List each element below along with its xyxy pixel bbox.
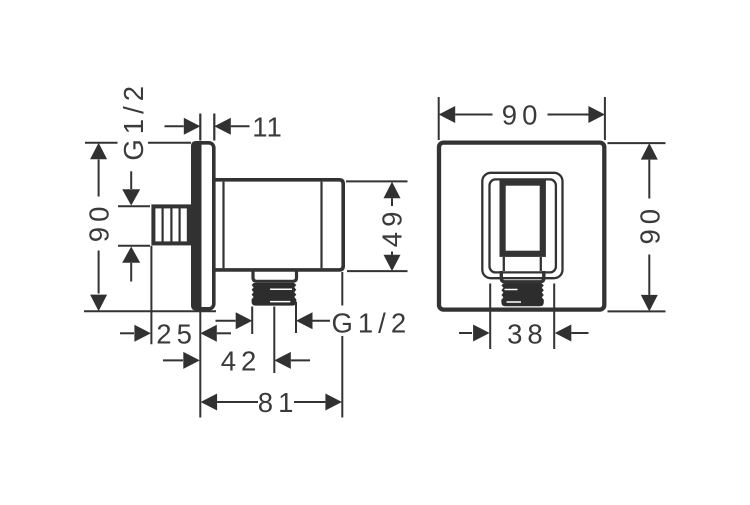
body ring line xyxy=(320,182,322,269)
49 dim line segments xyxy=(391,198,393,255)
top 90 dim ext lines xyxy=(439,97,605,140)
holder neck lines xyxy=(504,257,541,271)
svg-text:G1/2: G1/2 xyxy=(118,81,149,161)
11 left arrow xyxy=(184,118,201,135)
svg-text:49: 49 xyxy=(377,207,408,248)
outlet thread left ext line xyxy=(251,307,253,335)
holder plate inner xyxy=(490,179,556,272)
square escutcheon (front view) xyxy=(439,143,604,310)
svg-text:90: 90 xyxy=(635,204,666,245)
wall plane ext line (x=200.3) xyxy=(199,312,201,418)
wall flange thick back band xyxy=(191,141,202,311)
dim ext line bottom of flange (y=311.2) xyxy=(84,310,216,312)
38 right tail xyxy=(571,332,588,334)
81 left tail xyxy=(217,401,258,403)
wall flange outline (side view) xyxy=(193,143,214,309)
38 left arrow xyxy=(473,325,490,342)
11 right tail xyxy=(231,125,250,127)
11 left tail xyxy=(165,125,184,127)
svg-text:G1/2: G1/2 xyxy=(332,308,412,339)
49 bottom arrow xyxy=(384,255,401,271)
supply nipple thread hatch lines xyxy=(163,207,188,244)
81 left arrow (pointing left) xyxy=(201,394,218,411)
G1/2 bottom right arrow xyxy=(296,312,313,329)
11 dim ext lines xyxy=(200,114,214,141)
svg-text:11: 11 xyxy=(252,112,283,143)
11 right arrow xyxy=(214,118,231,135)
supply nipple outline (side view) xyxy=(153,206,189,243)
top 90 right arrow xyxy=(588,106,605,123)
svg-text:81: 81 xyxy=(258,387,299,418)
25 right arrow xyxy=(200,325,217,342)
G1/2 bottom dim left tail xyxy=(216,320,236,322)
svg-text:38: 38 xyxy=(507,318,548,349)
90 bottom arrow xyxy=(90,295,107,312)
dim ext line top of flange (y=142.7, broken at G glyph) xyxy=(85,142,191,144)
body inner left line xyxy=(222,182,224,269)
G1/2 leader line xyxy=(130,171,132,189)
38 dim ext lines xyxy=(490,284,554,350)
supply nipple top ext line xyxy=(118,205,150,207)
outlet thread right ext line xyxy=(295,302,297,333)
outlet thread highlights (front) xyxy=(505,290,522,303)
G1/2 bottom left arrow xyxy=(236,312,253,329)
49 top arrow xyxy=(384,182,401,198)
25 left tail xyxy=(120,332,134,334)
top 90 left arrow xyxy=(439,106,456,123)
outlet thread (side view) xyxy=(252,283,297,306)
49 dim bottom ext line xyxy=(347,270,408,272)
42 right arrow xyxy=(274,352,291,369)
38 left tail xyxy=(459,332,472,334)
42 left arrow xyxy=(183,352,200,369)
holder bracket (front view) xyxy=(503,183,543,254)
42 right tail xyxy=(291,359,310,361)
holder plate outer (front view) xyxy=(482,173,562,278)
81 right tail xyxy=(294,401,325,403)
G1/2 up arrow tail xyxy=(130,263,132,282)
G1/2 bottom right tail xyxy=(313,320,331,322)
supply nipple bottom ext line xyxy=(118,245,150,247)
G1/2 leader down arrow xyxy=(122,189,140,205)
body outline (side view) xyxy=(214,180,343,270)
25 right tail xyxy=(217,332,231,334)
25 left arrow xyxy=(134,325,151,342)
right 90 dim line segments xyxy=(648,160,650,295)
38 right arrow xyxy=(555,325,572,342)
svg-text:25: 25 xyxy=(156,318,197,349)
49 dim top ext line xyxy=(346,180,408,182)
right 90 top arrow xyxy=(641,143,658,160)
svg-text:90: 90 xyxy=(83,202,114,243)
25 dim ext line (nipple left, x=151.4) xyxy=(150,246,152,344)
svg-text:90: 90 xyxy=(502,100,543,131)
right 90 dim ext lines xyxy=(608,143,666,311)
90 top arrow xyxy=(90,143,107,160)
90 dim line segments xyxy=(98,160,100,294)
outlet centerline ext (x=274.3) xyxy=(273,307,275,374)
top 90 right tail xyxy=(548,114,589,116)
body right ext line segments (x=342.3) xyxy=(341,272,343,418)
42 left tail xyxy=(163,359,183,361)
outlet thread highlights (side) xyxy=(270,289,292,301)
outlet thread (front view) xyxy=(501,283,543,306)
81 right arrow (pointing right) xyxy=(325,394,342,411)
G1/2 up arrow xyxy=(122,247,140,263)
outlet collar (side view) xyxy=(253,271,297,282)
svg-text:42: 42 xyxy=(221,346,262,377)
outlet collar (front view) xyxy=(501,271,544,282)
right 90 bottom arrow xyxy=(641,295,658,312)
top 90 left tail xyxy=(455,114,492,116)
